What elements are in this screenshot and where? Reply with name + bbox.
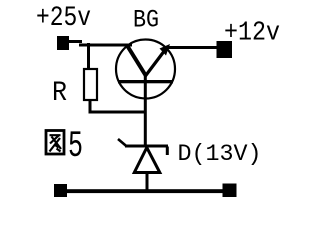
wire resistor to base node [89, 111, 147, 114]
resistor R [84, 69, 97, 100]
wire emitter to +12v terminal [166, 46, 218, 49]
zener diode triangle [134, 148, 160, 173]
transistor collector arm [127, 45, 147, 77]
wire zener anode lead [146, 172, 149, 191]
svg-text:+12v: +12v [224, 19, 280, 49]
svg-text:R: R [52, 78, 67, 109]
zener left bent end [118, 139, 126, 146]
svg-text:BG: BG [133, 6, 159, 35]
terminal bottom left [54, 184, 67, 197]
transistor emitter arm with arrow [145, 50, 165, 77]
zener right bent end [166, 147, 169, 156]
wire resistor branch [87, 43, 90, 69]
svg-text:+25v: +25v [36, 3, 91, 34]
terminal +25v [57, 36, 69, 50]
ground rail [60, 189, 229, 193]
zener diode D cathode bar [125, 145, 168, 148]
svg-text:5: 5 [68, 126, 83, 168]
svg-text:D(13V): D(13V) [178, 141, 262, 167]
label figure 图 glyph [46, 131, 64, 155]
wire resistor bottom lead [89, 100, 92, 113]
transistor BG circle [116, 40, 175, 99]
transistor base bar [118, 80, 173, 83]
terminal +12v [217, 41, 233, 58]
terminal bottom right [223, 184, 237, 198]
transistor base stem [144, 74, 147, 146]
wire from +25v terminal to collector [68, 40, 82, 43]
